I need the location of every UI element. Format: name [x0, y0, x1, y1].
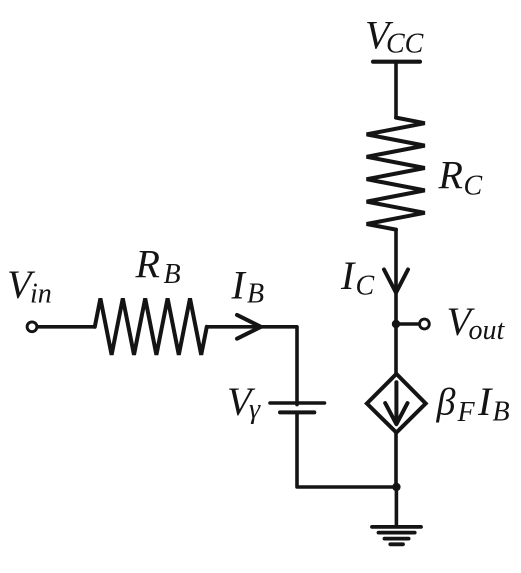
svg-text:C: C [356, 271, 375, 302]
resistor RC [367, 118, 425, 230]
controlled source arrow [394, 382, 398, 421]
svg-text:in: in [30, 279, 52, 310]
terminal Vout open circle [420, 319, 430, 329]
svg-text:F: F [457, 397, 476, 428]
svg-text:B: B [493, 396, 510, 427]
controlled current source U1 diamond [367, 374, 426, 433]
label Vgamma [227, 379, 261, 425]
wire node to Vout terminal [396, 322, 418, 326]
power rail VCC bar [373, 60, 420, 64]
label Vin [7, 262, 52, 309]
wire RB to corner [207, 327, 297, 405]
svg-text:C: C [464, 171, 483, 202]
svg-text:out: out [469, 315, 506, 346]
label RB [135, 242, 181, 290]
wire Vin to RB [39, 325, 95, 329]
label IC [340, 253, 375, 302]
label RC [438, 153, 483, 202]
battery Vgamma short plate [280, 410, 314, 414]
wire node to ground [395, 487, 399, 526]
node Vout junction dot [392, 320, 400, 328]
svg-text:R: R [135, 242, 160, 287]
wire VCC to RC [394, 62, 398, 118]
battery Vgamma long plate [270, 401, 325, 405]
current arrow IC [384, 270, 408, 293]
ground [372, 527, 421, 544]
wire node to current source [394, 324, 398, 374]
terminal Vin open circle [27, 322, 37, 332]
wire source to ground node [394, 433, 398, 487]
label VCC [365, 12, 424, 59]
node ground junction dot [392, 483, 400, 491]
label beta_F I_B [436, 379, 510, 428]
svg-text:I: I [340, 253, 356, 298]
resistor RB [95, 298, 207, 354]
current arrow IB [237, 315, 261, 339]
svg-text:β: β [436, 382, 456, 424]
svg-text:B: B [164, 259, 181, 290]
svg-text:γ: γ [249, 394, 261, 425]
wire battery to ground node [297, 412, 396, 487]
svg-text:B: B [247, 279, 264, 310]
svg-text:CC: CC [386, 28, 424, 59]
svg-text:I: I [477, 379, 493, 424]
svg-text:R: R [438, 153, 463, 198]
label Vout [447, 299, 506, 346]
wire RC to collector node [394, 230, 398, 324]
svg-text:I: I [231, 262, 247, 307]
label IB [231, 262, 265, 309]
